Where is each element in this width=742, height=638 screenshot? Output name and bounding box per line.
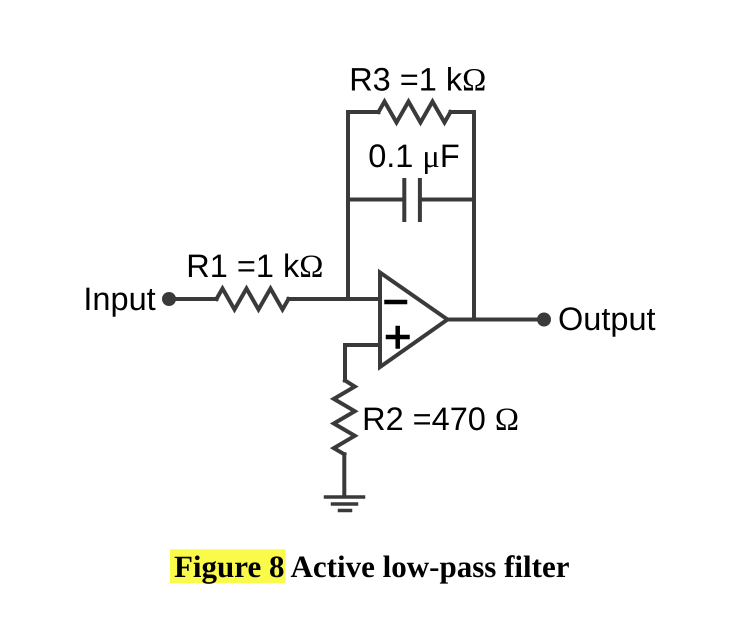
op-amp minus input symbol xyxy=(387,300,406,305)
wire feedback right vertical xyxy=(472,112,476,318)
wire capacitor right xyxy=(422,198,474,202)
wire input horizontal xyxy=(169,297,217,301)
op-amp plus input symbol xyxy=(388,335,408,340)
svg-text:0.1 μF: 0.1 μF xyxy=(368,138,460,175)
svg-text:R2 =470 Ω: R2 =470 Ω xyxy=(362,401,519,438)
op-amp U1 xyxy=(380,273,448,368)
wire R3 right xyxy=(451,110,475,114)
svg-text:R1 =1 kΩ: R1 =1 kΩ xyxy=(186,248,323,285)
caption highlight xyxy=(170,549,286,583)
wire feedback left vertical xyxy=(346,112,350,299)
svg-text:Output: Output xyxy=(558,301,656,337)
ground xyxy=(326,497,364,511)
node input dot xyxy=(162,292,176,306)
svg-text:Input: Input xyxy=(83,281,155,317)
svg-text:R3 =1 kΩ: R3 =1 kΩ xyxy=(349,62,486,99)
wire capacitor left xyxy=(348,198,402,202)
resistor R3 xyxy=(379,102,451,123)
resistor R2 xyxy=(334,381,355,455)
node output dot xyxy=(537,313,551,327)
wire R2 to ground xyxy=(342,454,346,496)
wire non-inverting input xyxy=(345,345,380,381)
wire output xyxy=(447,318,544,322)
resistor R1 xyxy=(217,289,289,310)
svg-text:Figure 8 Active low-pass filte: Figure 8 Active low-pass filter xyxy=(174,549,570,584)
capacitor C1 plates xyxy=(402,180,406,220)
wire R3 left xyxy=(348,110,379,114)
wire R1 to op-amp inverting input xyxy=(289,297,381,301)
